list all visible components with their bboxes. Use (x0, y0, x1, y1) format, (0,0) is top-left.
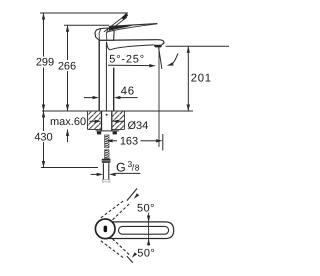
label 201 (190, 73, 213, 84)
svg-text:8: 8 (135, 162, 140, 172)
dimension line through pill (148, 213, 150, 246)
svg-text:Ø34: Ø34 (128, 120, 149, 132)
supply hose (102, 163, 104, 182)
arrow to pill bottom (147, 239, 150, 246)
arrow to pill top (147, 216, 150, 223)
leader 5-25 with arrow (108, 64, 150, 66)
dimension 163 (106, 139, 113, 142)
wire extension line bottom of 430 (41, 167, 98, 169)
plan spout slot (119, 226, 169, 234)
svg-text:266: 266 (58, 61, 76, 73)
dimension G3/8 arrows (91, 173, 97, 175)
plan lever knob (104, 226, 108, 233)
faucet body front line (105, 42, 107, 111)
dimension 201 (187, 46, 189, 111)
dimension max.60 lower arrow (67, 129, 69, 142)
svg-text:201: 201 (191, 73, 212, 85)
washer bar under deck (96, 130, 120, 132)
nut left (97, 132, 101, 135)
wire extension line top (299 reference, lever raised tip) (40, 12, 128, 14)
wire extension line for 163 (162, 134, 164, 151)
svg-text:46: 46 (121, 86, 135, 98)
dimension 266 line (67, 25, 69, 111)
lever blade (109, 25, 137, 31)
label G3/8 with leader underline (115, 172, 141, 174)
svg-text:50°: 50° (137, 203, 155, 215)
wire vertical extension from aerator (158, 47, 160, 148)
dimension 299 line (43, 13, 45, 111)
svg-text:G: G (116, 160, 126, 174)
swivel dashed spout outline down-right (101, 241, 125, 259)
shank through deck (101, 112, 112, 131)
svg-text:50°: 50° (137, 247, 155, 259)
svg-text:430: 430 (34, 132, 52, 144)
wire extension line (266 reference, lever top) (64, 24, 109, 26)
hex nut on hose (102, 159, 111, 163)
wire extension line from spout tip (201 top) (166, 45, 230, 47)
spout underside curve (107, 42, 154, 50)
faucet body left edge (98, 40, 100, 111)
threaded stud (105, 135, 109, 159)
svg-text:5°-25°: 5°-25° (109, 54, 145, 66)
swivel angle arrow up-right (127, 189, 137, 201)
aerator (154, 45, 162, 48)
spout outline (99, 40, 164, 45)
stream angle line (159, 47, 162, 69)
dimension 430 line (43, 111, 45, 168)
deck top surface line (42, 110, 193, 112)
arc 25 with arrow (172, 53, 178, 64)
svg-text:163: 163 (120, 135, 138, 147)
hose end fitting (102, 180, 110, 182)
plan spout pill (105, 222, 174, 239)
deck cross-section hatched (88, 112, 101, 129)
nut right (113, 132, 117, 135)
swivel dashed spout outline up-right (101, 200, 125, 218)
dimension Ø34 arrows (90, 120, 96, 122)
lever pivot boss (95, 28, 114, 40)
plan body circle (95, 219, 115, 239)
faucet body right edge (113, 68, 115, 112)
svg-text:299: 299 (36, 57, 54, 69)
swivel angle arrow down-right (127, 256, 133, 263)
svg-text:max.60: max.60 (50, 116, 86, 128)
lever raised position (104, 16, 125, 32)
